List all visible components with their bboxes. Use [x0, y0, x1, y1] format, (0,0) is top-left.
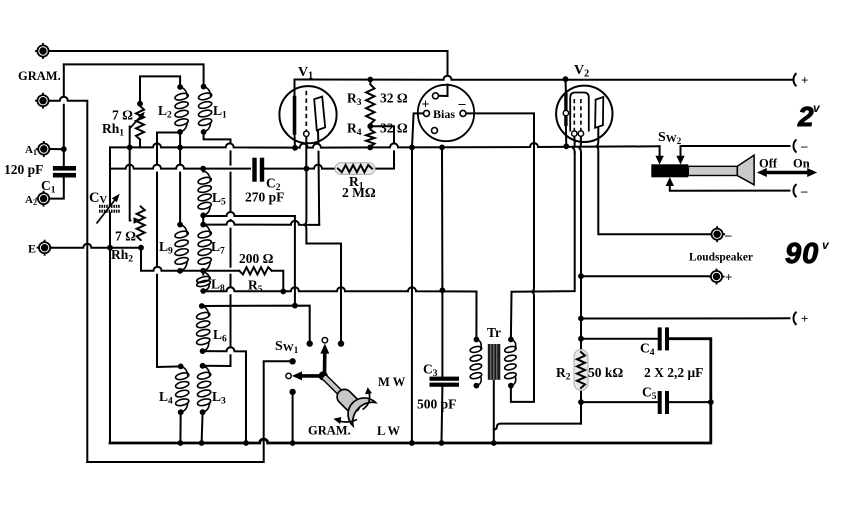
rheostat Rh2 7ohm: [137, 207, 145, 241]
wire V2 anode drop to loudspeaker minus: [596, 128, 711, 234]
wire V2 top entry: [565, 79, 568, 146]
switch Sw2 plug shaft: [688, 166, 737, 175]
node Tr secondary top: [508, 337, 514, 343]
wire bias - to Tr secondary bottom: [466, 113, 534, 402]
valve V2 filament electrode: [564, 93, 567, 126]
node R4 bottom on LT rail: [367, 145, 373, 151]
wire L5 bottom rail y=216: [203, 212, 295, 306]
node L6 top: [199, 303, 205, 309]
valve V2 grid circle 1: [572, 131, 577, 136]
coil L5 top lead: [202, 169, 204, 172]
node Tr primary bottom: [474, 383, 480, 389]
wire L2 bottom to rail: [179, 132, 181, 148]
resistor R5 200ohm: [239, 267, 271, 274]
wire V1 anode drop: [318, 131, 319, 225]
svg-text:Bias: Bias: [433, 107, 455, 121]
node Sw1 MW contact: [338, 340, 344, 346]
node L4 on earth rail: [178, 440, 184, 446]
wire Sw2 left contact drop: [659, 146, 661, 158]
battery Bias envelope: [418, 85, 474, 141]
wire grid rail y=224.7 L7-top to anode drop: [203, 221, 319, 225]
wire Tr secondary top to V2 filament: [511, 153, 575, 340]
wire T2 GRAM row: [50, 97, 88, 462]
valve V2 grid circle 2: [578, 131, 583, 136]
switch Sw1 knob crescent: [348, 398, 375, 426]
switch Sw1 rotation arrow MW: [363, 392, 370, 410]
node C5 right junction: [708, 399, 714, 405]
wire E row: [51, 244, 141, 248]
node C5 R2 junction: [578, 399, 584, 405]
resistor R3 32ohm: [366, 80, 374, 127]
wire Sw1 GRAM contact drop to earth: [292, 392, 294, 444]
valve V2 screen box outline: [570, 93, 589, 132]
wire LT- rail right portion after Sw2 gap: [681, 145, 790, 147]
switch Sw2 on-off arrow: [757, 168, 817, 177]
node L3 on earth rail: [199, 440, 205, 446]
wire A1 row: [51, 148, 64, 150]
wire grid row y=168.6 from x=110 to C2: [110, 165, 250, 169]
battery bias bottom pin: [432, 128, 438, 134]
valve V2 filament mid circle: [563, 110, 568, 115]
terminal loudspeaker minus: [709, 226, 725, 242]
node L6 drop on earth rail: [243, 440, 249, 446]
svg-text:50 kΩ: 50 kΩ: [588, 365, 623, 380]
terminal T1 gram upper: [35, 43, 51, 59]
wire Rh2 bottom to L9 bottom: [141, 248, 180, 271]
svg-text:GRAM.: GRAM.: [308, 424, 351, 438]
rheostat Rh1 7ohm: [136, 106, 144, 140]
node L9 top: [177, 222, 183, 228]
node L4 top: [178, 364, 184, 370]
capacitor C3 500pF plates: [430, 377, 460, 387]
resistor R1 2Mohm with grey pill: [335, 163, 375, 175]
coil L3: [197, 366, 212, 412]
rheostat Rh2 tap arrow: [134, 217, 142, 224]
node Rh tap on LT rail: [127, 145, 133, 151]
wire Sw2 right contact drop: [680, 146, 682, 159]
wire bias + drop x=412: [412, 113, 424, 443]
wire R2 bottom return to core lead: [494, 424, 581, 430]
wire L1 bottom long drop to L3 top: [203, 132, 231, 366]
node Sw1 earth contact: [289, 389, 295, 395]
node C3 top on LT rail: [439, 145, 445, 151]
terminal arc HT+ bottom: [793, 312, 796, 325]
svg-text:–: –: [724, 227, 732, 242]
valve V2 grid dashed 2: [580, 99, 582, 131]
svg-text:–: –: [800, 183, 808, 198]
wire L6 top rail y=305.6 to Sw1 contact: [202, 306, 310, 344]
node V2 filament on LT rail: [563, 143, 569, 149]
node L1 top: [201, 84, 207, 90]
switch Sw1 arrow up: [320, 344, 329, 376]
wire V2 lead2 column x=580.3: [578, 136, 581, 423]
wire Tr core centre lead: [493, 380, 495, 443]
svg-text:+: +: [801, 311, 808, 326]
node L2 top: [177, 84, 183, 90]
valve V1 anode plate: [314, 97, 325, 131]
wire V1 anode-top entry: [294, 80, 296, 97]
terminal arc minus low: [793, 184, 796, 197]
switch Sw2 plug flange: [737, 155, 754, 185]
battery bias plus pin: [424, 110, 430, 116]
node L4 bottom: [178, 409, 184, 415]
capacitor C1 120pF plates: [53, 166, 76, 178]
node Sw1 earth drop on rail: [290, 440, 296, 446]
wire C5 row: [581, 401, 711, 403]
switch Sw2 contact arrow bottom: [666, 177, 674, 186]
switch Sw2 contact arrow right: [676, 156, 684, 165]
node L8 bottom: [200, 288, 206, 294]
node HT+ tap: [578, 316, 584, 322]
wire HT+ row y=318: [581, 317, 790, 319]
wire L7-L8 link: [202, 271, 204, 275]
svg-text:On: On: [793, 157, 810, 171]
wire L4 bottom drop: [179, 412, 181, 443]
svg-text:2 MΩ: 2 MΩ: [342, 185, 376, 200]
node bias plus on LT rail: [409, 145, 415, 151]
wire L9-L7 bottom row to R5: [180, 270, 239, 272]
wire V2 filament lead 1 into tube: [572, 136, 575, 152]
node R3 top on HT rail: [367, 77, 373, 83]
wire Rh1 feed from L2 top: [140, 76, 180, 103]
node R5 drop on L8 rail: [280, 289, 286, 295]
switch Sw1 pivot: [319, 371, 328, 380]
terminal E: [37, 240, 53, 256]
node R3/R4 junction: [367, 123, 373, 129]
valve V2 anode plate: [595, 97, 603, 128]
svg-text:Loudspeaker: Loudspeaker: [689, 252, 753, 264]
wire grid drop to grid rail junction: [303, 169, 341, 344]
wire T1 row to bias battery top: [50, 51, 448, 96]
valve V1 envelope: [279, 86, 336, 143]
wire L3 bottom drop: [202, 412, 203, 443]
node Sw1 L6 contact: [307, 340, 313, 346]
node A1/C1 junction: [61, 146, 67, 152]
svg-text:7 Ω: 7 Ω: [115, 229, 136, 244]
terminal T2 gram lower: [35, 93, 51, 109]
wire Rh-link x=129.7 down to Rh2 tap: [129, 147, 132, 220]
switch Sw1 tip circle up: [322, 338, 327, 343]
node L5 top: [200, 166, 206, 172]
node loudspeaker plus tap: [578, 273, 584, 279]
svg-text:2 X 2,2 μF: 2 X 2,2 μF: [644, 365, 703, 380]
node L1 bottom: [201, 129, 207, 135]
wire HT+ top rail y=79.5: [295, 76, 794, 80]
coil L4: [175, 366, 190, 412]
coil L9: [174, 225, 189, 271]
valve V2 grid dashed 1: [573, 99, 575, 131]
node V2 top on HT rail: [563, 76, 569, 82]
wire aerial link x=63.8 down to A1: [63, 64, 65, 149]
wire R1 left lead with hop over anode drop: [306, 165, 338, 169]
battery bias minus pin: [460, 110, 466, 116]
switch Sw1 tip circle left: [286, 373, 291, 378]
svg-text:90: 90: [785, 238, 819, 270]
terminal A2: [36, 191, 52, 207]
switch Sw1 rotation arrow GRAM: [338, 420, 358, 423]
svg-text:+: +: [725, 270, 732, 285]
node Tr primary top: [474, 337, 480, 343]
node Rh2 bottom on E row: [138, 245, 144, 251]
coil L7: [197, 225, 212, 271]
svg-text:2: 2: [797, 101, 814, 132]
node Sw1 gram contact: [289, 358, 295, 364]
wire Sw2 bottom contact to (- row: [670, 184, 790, 191]
wire C2 right to grid junction: [264, 168, 306, 170]
resistor R2 50k with grey pill: [574, 350, 588, 391]
wire C4 row: [581, 338, 658, 340]
wire earth rail 2 (GRAM): [87, 361, 292, 462]
wire L6 bottom to earth drop: [203, 347, 246, 443]
battery bias top pin: [433, 93, 439, 99]
svg-text:+: +: [801, 73, 808, 88]
transformer Tr secondary coil: [504, 340, 517, 386]
wire Cv column x=110 rail to E: [109, 147, 111, 247]
coil L1: [198, 87, 213, 132]
switch Sw2 plug black sleeve: [651, 164, 688, 177]
node L3 bottom: [200, 409, 206, 415]
node Tr core on earth rail: [491, 440, 497, 446]
coil L5: [197, 171, 212, 215]
node Rh1 top: [137, 101, 143, 107]
terminal arc HT+ top: [793, 73, 796, 86]
node V1 filament on LT rail: [292, 145, 298, 151]
svg-text:32 Ω: 32 Ω: [380, 91, 408, 106]
svg-text:–: –: [800, 138, 808, 153]
wire L1 top feed y=64.4: [64, 64, 204, 86]
rheostat Rh1 tap arrow: [130, 112, 145, 129]
svg-text:200 Ω: 200 Ω: [239, 251, 274, 266]
terminal arc LT- mid: [793, 140, 796, 153]
terminal loudspeaker plus: [709, 269, 725, 285]
svg-text:GRAM.: GRAM.: [18, 69, 61, 83]
terminal A1: [36, 141, 52, 157]
svg-text:32 Ω: 32 Ω: [380, 121, 408, 136]
wire R1 right lead up to R3/R4 junction: [370, 126, 394, 168]
capacitor C4 plates: [658, 327, 669, 350]
node C3 bottom on earth rail: [439, 440, 445, 446]
wire E drop to earth rail: [109, 248, 111, 443]
wire R5 right drop: [272, 271, 284, 292]
capacitor Cv variable plates: [99, 206, 121, 211]
switch Sw1 lever shaft: [324, 377, 345, 398]
wire Rh1 tap drop: [129, 127, 131, 148]
valve V1 filament electrode: [293, 96, 297, 135]
valve V1 grid terminal circle: [304, 131, 309, 136]
capacitor C5 plates: [658, 391, 669, 414]
svg-text:+: +: [422, 98, 430, 113]
svg-text:Off: Off: [759, 157, 778, 171]
wire V1 grid lead down: [305, 136, 307, 168]
svg-text:500 pF: 500 pF: [417, 397, 456, 412]
wire L2 bottom left feed to L4 top: [157, 133, 181, 368]
wire C1 links: [50, 149, 63, 198]
capacitor C2 270pF plates: [252, 158, 264, 182]
svg-text:E: E: [28, 242, 36, 256]
wire L9 top feed from rail: [179, 147, 181, 224]
resistor R4 32ohm: [366, 126, 374, 147]
wire L8 bottom rail y=291 to Tr primary: [203, 287, 476, 339]
switch Sw1 arrow left: [292, 371, 323, 380]
node C3 on mid rail: [440, 287, 446, 293]
wire loudspeaker plus row: [581, 275, 710, 277]
node C4 tap: [578, 336, 584, 342]
node bias drop on earth rail: [409, 440, 415, 446]
node L5 drop on L6 rail: [292, 303, 298, 309]
valve V1 grid dashed: [305, 91, 307, 131]
switch Sw1 lever grip: [345, 397, 353, 405]
wire V1 filament bottom: [294, 135, 297, 148]
node L7 bottom: [200, 268, 206, 274]
node L2/L9 on LT rail: [177, 145, 183, 151]
svg-text:–: –: [458, 97, 467, 112]
node L9 bottom: [177, 268, 183, 274]
node L2 bottom: [177, 129, 183, 135]
svg-text:120 pF: 120 pF: [4, 162, 43, 177]
wire Rh1 bottom to rail: [139, 140, 141, 148]
coil L2: [174, 87, 189, 132]
transformer Tr primary coil: [470, 340, 483, 386]
svg-text:L W: L W: [377, 424, 401, 438]
node L7 top: [200, 222, 206, 228]
coil L8: [196, 272, 211, 291]
node L6 bottom: [200, 348, 206, 354]
svg-text:M W: M W: [378, 375, 406, 389]
wire earth rail bottom y=443: [110, 339, 711, 443]
node L5 bottom: [200, 213, 206, 219]
svg-text:270 pF: 270 pF: [245, 190, 284, 205]
wire C3 rail stub: [441, 290, 443, 291]
valve V2 envelope: [556, 86, 612, 142]
transformer Tr core: [488, 344, 501, 380]
coil L6: [196, 306, 211, 351]
node grid R1 C2 junction: [304, 166, 310, 172]
node Tr secondary bottom: [508, 383, 514, 389]
node Cv bottom on E row: [107, 245, 113, 251]
switch Sw2 contact arrow left: [655, 156, 663, 165]
node L3 top: [200, 363, 206, 369]
wire LT- rail y=147.4 left portion: [110, 143, 660, 148]
capacitor Cv arrow: [97, 194, 120, 224]
svg-text:Tr: Tr: [487, 325, 501, 340]
wire C3 column: [441, 147, 444, 443]
wire L5-L7 junction link: [202, 215, 204, 224]
